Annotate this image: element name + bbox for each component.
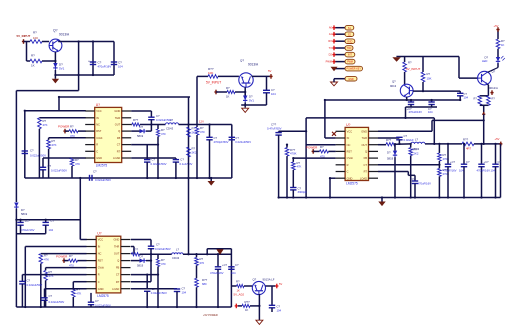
svg-text:R??: R??: [133, 248, 139, 252]
svg-text:GND: GND: [98, 287, 104, 291]
svg-text:47K: 47K: [52, 143, 57, 147]
svg-text:D?: D?: [140, 255, 144, 259]
svg-text:470uF/16V: 470uF/16V: [21, 228, 35, 232]
svg-text:OUT: OUT: [114, 252, 120, 256]
svg-text:CVolt: CVolt: [347, 156, 353, 160]
svg-text:R?: R?: [200, 126, 204, 130]
svg-text:0.1uF/50V: 0.1uF/50V: [180, 162, 193, 166]
svg-text:R??: R??: [463, 138, 469, 142]
svg-text:A1: A1: [329, 32, 333, 36]
svg-text:680: 680: [202, 282, 207, 286]
svg-text:TXD: TXD: [347, 47, 352, 50]
svg-text:GND: GND: [347, 176, 353, 180]
svg-text:104: 104: [464, 95, 469, 99]
svg-text:U?: U?: [346, 123, 350, 127]
svg-text:LM2575: LM2575: [346, 182, 358, 186]
svg-text:GND: GND: [348, 78, 354, 81]
svg-text:VCC: VCC: [96, 109, 102, 113]
svg-text:RT: RT: [116, 280, 120, 284]
svg-text:R?: R?: [443, 153, 447, 157]
svg-text:R: R: [98, 273, 100, 277]
svg-text:POWER: POWER: [56, 254, 68, 258]
svg-text:+C?: +C?: [410, 177, 416, 181]
svg-text:A0: A0: [329, 26, 333, 30]
svg-text:10K: 10K: [427, 77, 432, 81]
svg-text:R?: R?: [226, 86, 230, 90]
svg-text:+C?: +C?: [450, 160, 456, 164]
svg-text:THR: THR: [362, 136, 367, 140]
svg-text:470uF/16V: 470uF/16V: [443, 168, 457, 172]
svg-text:NC: NC: [96, 123, 100, 127]
svg-text:LED: LED: [482, 59, 487, 63]
svg-text:5V_ADJ: 5V_ADJ: [234, 292, 245, 296]
svg-text:CVolt: CVolt: [98, 266, 104, 270]
svg-text:C: C: [347, 170, 349, 174]
svg-text:5819: 5819: [21, 212, 28, 216]
svg-text:0.022uF/50V: 0.022uF/50V: [235, 140, 251, 144]
svg-text:C?: C?: [27, 279, 31, 283]
svg-text:C?: C?: [93, 170, 97, 174]
svg-text:Q: Q: [365, 150, 367, 154]
svg-text:R: R: [96, 143, 98, 147]
svg-text:0.022uF/50V: 0.022uF/50V: [49, 300, 65, 304]
svg-text:PWM: PWM: [326, 60, 332, 64]
svg-text:0.022uF/50V: 0.022uF/50V: [95, 178, 111, 182]
svg-text:VCC: VCC: [98, 238, 104, 242]
svg-text:47K: 47K: [297, 164, 302, 168]
svg-text:470uF/16V: 470uF/16V: [477, 168, 491, 172]
svg-text:IN: IN: [98, 245, 101, 249]
svg-text:CD43: CD43: [166, 127, 174, 131]
svg-text:2K2: 2K2: [414, 152, 419, 156]
svg-text:0.022uF: 0.022uF: [404, 138, 415, 142]
svg-text:POWER KEY: POWER KEY: [347, 68, 362, 71]
svg-text:0.022uF/50V: 0.022uF/50V: [151, 162, 167, 166]
svg-text:L?: L?: [415, 138, 419, 142]
svg-text:Q: Q: [118, 129, 120, 133]
svg-text:R?: R?: [297, 161, 301, 165]
svg-text:+5V: +5V: [494, 24, 499, 28]
svg-text:U?: U?: [96, 103, 100, 107]
svg-text:U?: U?: [97, 232, 101, 236]
svg-text:VCC: VCC: [347, 129, 353, 133]
svg-text:47K: 47K: [44, 257, 49, 261]
svg-text:9013A LF: 9013A LF: [263, 277, 275, 281]
svg-text:CT: CT: [116, 273, 120, 277]
svg-text:104: 104: [277, 308, 282, 312]
svg-text:IN: IN: [347, 136, 350, 140]
svg-text:THR: THR: [114, 245, 119, 249]
svg-text:D2: D2: [329, 53, 333, 57]
svg-text:RT: RT: [117, 149, 121, 153]
svg-text:C: C: [98, 280, 100, 284]
svg-text:IN: IN: [96, 116, 99, 120]
svg-text:3300pF: 3300pF: [298, 190, 308, 194]
svg-text:RX: RX: [328, 39, 332, 43]
svg-text:FB: FB: [117, 136, 121, 140]
svg-text:4700pF/50V: 4700pF/50V: [214, 140, 229, 144]
svg-text:4R7: 4R7: [466, 147, 472, 151]
svg-text:R?: R?: [161, 258, 165, 262]
svg-text:POWER: POWER: [58, 125, 70, 129]
svg-text:+C?: +C?: [484, 160, 490, 164]
svg-text:R?: R?: [70, 125, 74, 129]
svg-text:0.022uF/50V: 0.022uF/50V: [27, 283, 43, 287]
svg-text:C: C: [96, 149, 98, 153]
svg-text:R?: R?: [236, 279, 240, 283]
svg-text:R?: R?: [492, 97, 496, 101]
svg-text:R??: R??: [386, 138, 392, 142]
svg-text:CT: CT: [117, 143, 121, 147]
svg-text:CT: CT: [364, 163, 368, 167]
svg-text:0.022uF/50V: 0.022uF/50V: [51, 169, 67, 173]
svg-text:R??: R??: [245, 300, 251, 304]
svg-text:2K2: 2K2: [192, 151, 197, 155]
svg-text:C?: C?: [95, 299, 99, 303]
svg-text:LOAD: LOAD: [113, 156, 120, 160]
svg-text:C?: C?: [235, 263, 239, 267]
svg-text:TX: TX: [329, 46, 333, 50]
svg-text:LOAD: LOAD: [112, 287, 119, 291]
svg-text:GND: GND: [361, 129, 367, 133]
svg-text:5V_INPUT: 5V_INPUT: [17, 34, 31, 38]
svg-text:470: 470: [161, 132, 166, 136]
svg-text:Q?: Q?: [253, 277, 257, 281]
svg-text:FB: FB: [116, 266, 120, 270]
svg-text:470: 470: [200, 130, 205, 134]
svg-text:1K: 1K: [31, 64, 35, 68]
svg-text:RXD: RXD: [347, 40, 352, 43]
svg-text:C?: C?: [182, 287, 186, 291]
svg-text:RST: RST: [347, 150, 353, 154]
svg-text:5819: 5819: [137, 134, 144, 138]
svg-text:9013: 9013: [390, 84, 397, 88]
svg-text:C?: C?: [277, 304, 281, 308]
svg-text:104: 104: [182, 291, 187, 295]
svg-text:PWM: PWM: [347, 61, 353, 64]
svg-text:470uF/16V: 470uF/16V: [409, 110, 423, 114]
svg-text:R?: R?: [161, 128, 165, 132]
svg-text:104: 104: [49, 228, 54, 232]
svg-text:C?: C?: [214, 136, 218, 140]
svg-text:R??: R??: [202, 278, 208, 282]
svg-text:OUT: OUT: [115, 123, 121, 127]
svg-text:GND: GND: [96, 156, 102, 160]
svg-text:1K: 1K: [245, 308, 248, 312]
svg-text:RT: RT: [364, 170, 368, 174]
svg-text:C?: C?: [498, 160, 502, 164]
svg-text:C?: C?: [51, 219, 55, 223]
svg-text:R?: R?: [320, 145, 324, 149]
svg-text:9013/A: 9013/A: [59, 33, 70, 37]
svg-text:9012/A: 9012/A: [489, 86, 498, 90]
svg-text:104: 104: [118, 65, 123, 69]
svg-text:R?: R?: [69, 254, 73, 258]
svg-text:C?: C?: [48, 164, 52, 168]
svg-text:LM2575: LM2575: [96, 164, 108, 168]
svg-text:R?: R?: [501, 39, 505, 43]
svg-text:5819: 5819: [387, 157, 394, 161]
svg-text:104: 104: [231, 271, 236, 275]
svg-text:C?: C?: [235, 136, 239, 140]
svg-text:0.022uF/50V: 0.022uF/50V: [151, 291, 167, 295]
svg-text:47K: 47K: [75, 162, 80, 166]
svg-text:Q?: Q?: [53, 29, 58, 33]
svg-text:5V_INPUT: 5V_INPUT: [206, 81, 221, 85]
svg-text:+: +: [88, 60, 90, 64]
svg-text:R?: R?: [31, 54, 35, 58]
svg-text:1K: 1K: [501, 43, 505, 47]
svg-text:+5V POWER: +5V POWER: [203, 314, 218, 317]
svg-text:RST: RST: [96, 129, 102, 133]
svg-text:0.47uF/50V: 0.47uF/50V: [267, 126, 282, 130]
svg-text:R?: R?: [200, 257, 204, 261]
svg-text:INT: INT: [348, 54, 352, 57]
svg-text:C?: C?: [30, 149, 34, 153]
svg-text:L?: L?: [176, 248, 180, 252]
svg-text:RST: RST: [98, 259, 104, 263]
svg-text:NC: NC: [98, 252, 102, 256]
svg-text:470uF/16V: 470uF/16V: [210, 271, 224, 275]
svg-text:R?: R?: [427, 72, 431, 76]
svg-text:100: 100: [33, 36, 38, 40]
svg-text:+5V: +5V: [495, 137, 500, 141]
svg-text:OUT: OUT: [362, 143, 368, 147]
svg-text:GND: GND: [114, 238, 120, 242]
svg-text:470uF/16V: 470uF/16V: [418, 182, 432, 186]
svg-text:47K: 47K: [76, 292, 81, 296]
svg-text:D?: D?: [387, 151, 391, 155]
svg-text:1K: 1K: [226, 95, 230, 99]
svg-text:CD43: CD43: [172, 256, 180, 260]
svg-text:5V: 5V: [268, 69, 272, 73]
svg-text:POWER: POWER: [306, 145, 318, 149]
svg-text:5V_INPUT: 5V_INPUT: [406, 67, 421, 71]
svg-text:12V: 12V: [199, 119, 204, 123]
svg-text:0.022uF/50V: 0.022uF/50V: [155, 247, 171, 251]
svg-text:+C?: +C?: [222, 263, 228, 267]
svg-text:5V: 5V: [279, 282, 282, 286]
svg-text:LM2575: LM2575: [97, 294, 109, 298]
svg-text:104: 104: [271, 92, 276, 96]
svg-text:R: R: [347, 163, 349, 167]
svg-text:104: 104: [459, 168, 464, 172]
svg-text:5819: 5819: [137, 263, 144, 267]
svg-text:LOAD: LOAD: [360, 176, 367, 180]
svg-text:C?: C?: [298, 186, 302, 190]
svg-text:L?: L?: [170, 118, 174, 122]
svg-text:THR: THR: [115, 116, 120, 120]
svg-text:Q: Q: [117, 259, 119, 263]
svg-text:104: 104: [428, 110, 433, 114]
svg-text:C?: C?: [466, 160, 470, 164]
svg-text:470K: 470K: [290, 151, 297, 155]
svg-text:R?: R?: [33, 31, 37, 35]
svg-text:R?: R?: [474, 97, 478, 101]
svg-text:NC: NC: [347, 143, 351, 147]
svg-text:C?: C?: [156, 243, 160, 247]
svg-text:Q?: Q?: [240, 59, 244, 63]
svg-text:+C?: +C?: [25, 219, 31, 223]
svg-text:FB: FB: [364, 156, 368, 160]
svg-text:CVolt: CVolt: [96, 136, 102, 140]
svg-text:C?: C?: [464, 92, 468, 96]
svg-text:470uF/16V: 470uF/16V: [98, 65, 112, 69]
svg-text:C?: C?: [49, 294, 53, 298]
svg-text:470: 470: [200, 261, 205, 265]
svg-text:104: 104: [491, 168, 496, 172]
svg-text:5V1: 5V1: [59, 67, 65, 71]
svg-text:D?: D?: [485, 55, 489, 59]
svg-text:470: 470: [161, 262, 166, 266]
svg-text:GND: GND: [114, 109, 120, 113]
svg-text:9013/A: 9013/A: [248, 63, 259, 67]
svg-text:47K: 47K: [43, 123, 48, 127]
svg-text:R??: R??: [133, 118, 139, 122]
svg-text:5V1: 5V1: [249, 99, 254, 103]
svg-text:D?: D?: [140, 125, 144, 129]
svg-text:R?: R?: [408, 61, 412, 65]
svg-text:0.022uF/50V: 0.022uF/50V: [30, 154, 46, 158]
svg-text:10K: 10K: [208, 71, 213, 75]
